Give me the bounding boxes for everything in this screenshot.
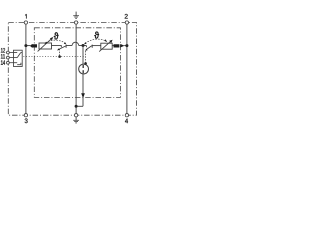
module contact arrow right (disconnect plug) [114,44,125,48]
module contact arrow left (disconnect plug) [30,44,37,48]
mechanical linkage dotted line (FM contact to disconnectors) [23,56,85,58]
terminal 2 [125,21,128,24]
earth symbol bottom [75,117,77,120]
earth symbol top [75,12,77,16]
disconnector switch S2 (contact hook, arm, arrowhead, fixed contact) [85,46,87,48]
terminal PE bottom [74,114,77,117]
wire main path left segment [26,45,30,47]
wire GDT riser from node B [82,46,84,65]
wire L (terminal 1 to terminal 3) [25,24,27,115]
linkage node dot at GDT [84,62,87,65]
node A junction on L wire [24,44,27,47]
thermal link dashed arc 1 with arrows [46,40,66,43]
varistor RV1 arrow (diagonal with head) [38,39,52,52]
FM terminal 14 [7,61,10,64]
FM terminal 12 [7,51,10,54]
node PE junction [75,105,78,108]
wire between varistor RV1 and disconnector switch [52,46,62,48]
theta symbol 1 [54,32,59,39]
wire GDT branch bend to PE riser [76,105,83,107]
linkage dashed drop from switch S2 arm to GDT [85,51,87,63]
linkage dashed riser to switch S1 arm [59,49,61,57]
linkage node dot at switch S1 [58,55,61,58]
theta symbol 2 [94,32,99,39]
remote signalling contact box (FM) [14,50,23,66]
wire to node B [79,45,87,47]
protection module box (inner dash-dot) [34,28,120,98]
wire varistor RV2 to module contact arrow [112,45,113,47]
wire N (terminal 2 to terminal 4) [126,24,128,115]
wire below GDT [82,74,84,107]
wire crossover hop over PE [72,42,79,45]
varistor RV2 arrow (diagonal with head) [99,41,111,51]
wire from switch S2 to varistor RV2 [92,45,100,47]
terminal 1 [24,21,27,24]
varistor RV1 box [39,43,52,49]
wire from switch to crossover [66,45,72,47]
thermal link dashed arc 2 with arrows [85,39,106,43]
wire to node C [124,45,127,47]
node B junction (mid node) [82,44,85,47]
terminal 4 [125,114,128,117]
thermal disconnector switch S1 (arm, arrowhead, fixed contact) [58,46,66,50]
gas discharge tube F1 (circle with electrodes) [79,64,89,74]
surge arrow down on GDT branch [81,93,85,98]
node C junction on N wire [125,44,128,47]
wire PE riser (top PE to bottom PE) [75,24,77,115]
varistor RV2 box [101,43,112,49]
FM terminal 11 [7,56,10,59]
enclosure border (dash-dot outline) [8,23,136,116]
FM contact internals (changeover contact) [14,53,23,65]
terminal PE top [74,21,77,24]
terminal 3 [24,114,27,117]
